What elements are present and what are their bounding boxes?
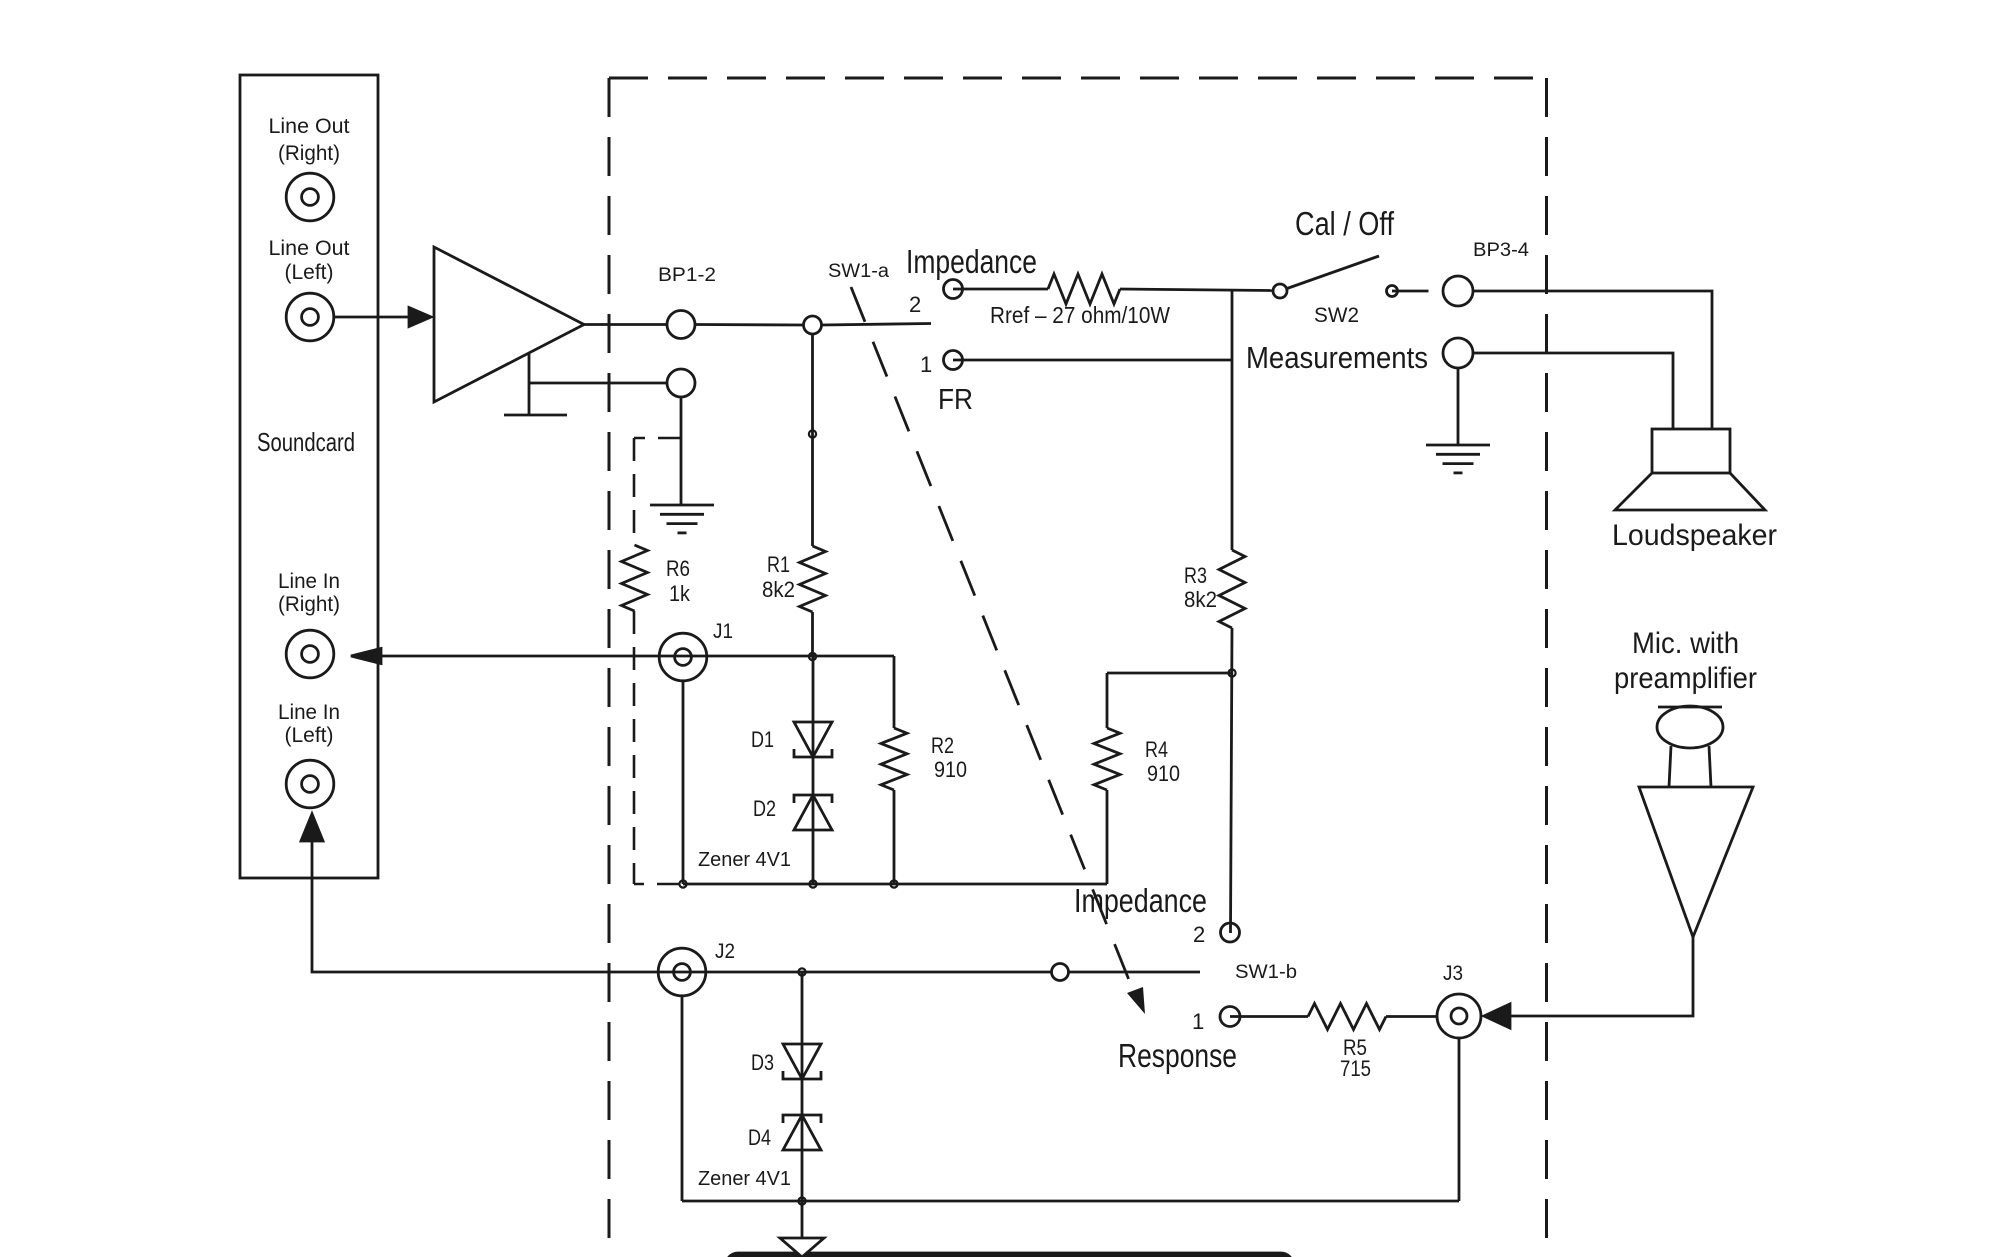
wire terminal2 to Rref bbox=[953, 288, 1048, 291]
wire Line In Left to J2 bbox=[312, 840, 1052, 972]
svg-text:Soundcard: Soundcard bbox=[257, 427, 355, 457]
optional dashed box around R6 bbox=[634, 438, 681, 884]
measurement bus vertical bbox=[1231, 290, 1234, 550]
wire terminal1 to R5 bbox=[1230, 1015, 1308, 1018]
wire Rref to SW2 bbox=[1120, 289, 1273, 291]
wire BP1 to SW1-a pole bbox=[695, 323, 804, 326]
switch SW2 pole bbox=[1273, 284, 1287, 298]
amp ground stub bbox=[528, 354, 531, 415]
svg-text:Cal / Off: Cal / Off bbox=[1295, 205, 1395, 242]
dashed mechanical link SW1-a to SW1-b bbox=[851, 287, 1137, 1000]
svg-text:D1: D1 bbox=[751, 727, 774, 752]
resistor R5 bbox=[1308, 1004, 1386, 1030]
jack J3 bbox=[1437, 994, 1481, 1038]
SW2 throw terminal bbox=[1387, 286, 1398, 297]
wire mic to J3 bbox=[1509, 937, 1693, 1016]
arrowhead of mechanical link bbox=[1127, 987, 1145, 1014]
terminal 2 of SW1-b bbox=[1221, 923, 1240, 942]
resistor Rref bbox=[1048, 274, 1120, 304]
svg-text:J2: J2 bbox=[715, 940, 735, 963]
svg-text:BP3-4: BP3-4 bbox=[1473, 240, 1529, 261]
svg-text:R1: R1 bbox=[767, 552, 790, 577]
svg-text:Mic. with: Mic. with bbox=[1632, 627, 1739, 660]
svg-text:910: 910 bbox=[934, 757, 967, 782]
ground below BP4 bbox=[1426, 444, 1490, 447]
svg-text:D2: D2 bbox=[753, 796, 776, 821]
loudspeaker magnet bbox=[1652, 429, 1730, 473]
svg-text:Zener 4V1: Zener 4V1 bbox=[698, 1167, 791, 1190]
jack J2 bbox=[658, 948, 706, 996]
wire J2 line through D3/D4 to bottom bus bbox=[801, 972, 804, 1201]
svg-text:1: 1 bbox=[920, 352, 932, 377]
svg-text:R4: R4 bbox=[1145, 737, 1168, 762]
wire down to ground plane arrow bbox=[801, 1201, 804, 1239]
svg-text:8k2: 8k2 bbox=[762, 577, 795, 602]
jack Line Out Right bbox=[286, 173, 334, 221]
svg-text:D4: D4 bbox=[748, 1125, 771, 1150]
svg-text:8k2: 8k2 bbox=[1184, 587, 1217, 612]
switch SW2 blade bbox=[1287, 256, 1379, 289]
arrowhead into amp bbox=[409, 308, 431, 327]
branch to R4 bbox=[1107, 672, 1232, 675]
arrowhead into Line In Right bbox=[351, 649, 381, 664]
ground below BP2 bbox=[650, 504, 714, 507]
switch SW1-a pole bbox=[804, 316, 822, 334]
svg-text:Line Out: Line Out bbox=[269, 237, 350, 260]
resistor R1 bbox=[800, 546, 826, 612]
open arrow to ground plane bbox=[780, 1238, 824, 1257]
resistor R4 bbox=[1094, 728, 1120, 790]
svg-text:Rref – 27 ohm/10W: Rref – 27 ohm/10W bbox=[990, 302, 1170, 328]
terminal 2 of SW1-a bbox=[944, 280, 963, 299]
junction R3/R4 bbox=[1228, 669, 1235, 676]
switch SW1-a blade bbox=[822, 324, 932, 326]
wire J1 row bbox=[380, 655, 894, 658]
jack J1 bbox=[659, 633, 707, 681]
svg-text:715: 715 bbox=[1340, 1056, 1371, 1081]
ground plane bar bbox=[726, 1253, 1293, 1257]
arrowhead into J3 bbox=[1484, 1004, 1510, 1028]
svg-text:Loudspeaker: Loudspeaker bbox=[1612, 519, 1777, 552]
zener bus wire bbox=[683, 883, 1107, 886]
svg-text:1: 1 bbox=[1192, 1009, 1204, 1034]
wire amp ground to BP2 bbox=[529, 382, 667, 385]
svg-text:SW1-a: SW1-a bbox=[828, 261, 889, 282]
zener D2 bbox=[794, 795, 832, 830]
terminal 1 of SW1-a bbox=[944, 351, 963, 370]
svg-text:SW1-b: SW1-b bbox=[1235, 962, 1297, 983]
svg-text:Line In: Line In bbox=[278, 570, 340, 593]
wire amp output to BP1 bbox=[584, 323, 667, 326]
wire bottom bus up to J3 bbox=[1458, 1038, 1461, 1201]
resistor R6 bbox=[622, 545, 648, 611]
svg-text:FR: FR bbox=[938, 384, 973, 416]
svg-text:R3: R3 bbox=[1184, 563, 1207, 588]
terminal BP4 bbox=[1443, 338, 1473, 368]
soundcard box bbox=[240, 75, 378, 878]
switch SW1-b blade bbox=[1069, 971, 1201, 974]
wire BP4 to ground bbox=[1457, 368, 1460, 445]
mic top line bbox=[1658, 706, 1722, 709]
junction R1/J1 bbox=[809, 653, 816, 660]
terminal BP1 bbox=[667, 311, 695, 339]
svg-text:Measurements: Measurements bbox=[1246, 340, 1428, 375]
amplifier triangle bbox=[434, 247, 584, 402]
svg-text:Response: Response bbox=[1118, 1037, 1237, 1074]
svg-text:R6: R6 bbox=[666, 556, 690, 581]
svg-text:(Right): (Right) bbox=[278, 593, 340, 616]
node on wire bbox=[809, 430, 816, 437]
svg-text:1k: 1k bbox=[669, 581, 691, 606]
resistor R2 leads bbox=[893, 656, 896, 728]
svg-text:2: 2 bbox=[909, 292, 921, 317]
arrowhead up into Line In Left bbox=[301, 814, 323, 841]
svg-text:Impedance: Impedance bbox=[906, 243, 1037, 280]
svg-text:J1: J1 bbox=[713, 620, 733, 643]
wire J2 down bbox=[681, 996, 684, 1201]
wire J1 down to zener bus bbox=[682, 681, 685, 884]
wire BP3 to loudspeaker bbox=[1473, 291, 1712, 429]
svg-text:Impedance: Impedance bbox=[1074, 882, 1207, 919]
svg-text:(Left): (Left) bbox=[285, 261, 334, 284]
switch SW1-b pole bbox=[1052, 964, 1069, 981]
mic preamp triangle bbox=[1639, 787, 1753, 937]
wire BP2 down to ground bbox=[680, 397, 683, 505]
svg-text:D3: D3 bbox=[751, 1050, 774, 1075]
wire SW1-a pole down to R1 bbox=[811, 334, 814, 546]
terminal BP3 bbox=[1443, 276, 1473, 306]
svg-text:2: 2 bbox=[1193, 922, 1205, 947]
wire R5 to J3 bbox=[1386, 1015, 1437, 1018]
wire J1 line through D1/D2 to bus bbox=[812, 656, 815, 884]
jack Line Out Left bbox=[286, 293, 334, 341]
svg-text:SW2: SW2 bbox=[1314, 304, 1359, 327]
wire R1 to J1 line bbox=[811, 612, 814, 657]
mic neck bbox=[1669, 746, 1671, 787]
wire terminal1 FR to measurement bus bbox=[953, 359, 1232, 362]
wire BP4 to loudspeaker bbox=[1473, 353, 1673, 429]
resistor R3 bbox=[1219, 550, 1245, 628]
zener D4 bbox=[783, 1115, 821, 1150]
dashed enclosure box bbox=[609, 78, 1547, 1257]
terminal 1 of SW1-b bbox=[1220, 1007, 1240, 1027]
bottom bus wire bbox=[682, 1200, 1459, 1203]
zener D3 bbox=[783, 1044, 821, 1079]
wire Line Out Left to amp bbox=[334, 316, 410, 319]
jack Line In Right bbox=[286, 630, 334, 678]
svg-text:Line In: Line In bbox=[278, 701, 340, 724]
mic capsule bbox=[1657, 706, 1723, 748]
junction J2/D3 bbox=[798, 968, 805, 975]
svg-text:(Right): (Right) bbox=[278, 142, 340, 165]
svg-text:(Left): (Left) bbox=[285, 724, 334, 747]
loudspeaker cone bbox=[1615, 473, 1765, 510]
svg-text:preamplifier: preamplifier bbox=[1614, 662, 1757, 695]
svg-text:Line Out: Line Out bbox=[269, 115, 350, 138]
terminal BP2 bbox=[667, 369, 695, 397]
svg-text:J3: J3 bbox=[1443, 962, 1463, 985]
svg-text:910: 910 bbox=[1147, 761, 1180, 786]
jack Line In Left bbox=[286, 760, 334, 808]
svg-text:Zener 4V1: Zener 4V1 bbox=[698, 848, 791, 871]
svg-text:R2: R2 bbox=[931, 733, 954, 758]
svg-text:BP1-2: BP1-2 bbox=[658, 265, 716, 286]
zener D1 bbox=[794, 722, 832, 757]
